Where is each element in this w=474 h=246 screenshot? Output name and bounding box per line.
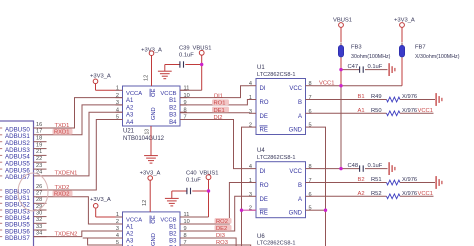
svg-text:27: 27 xyxy=(36,191,42,197)
svg-text:34: 34 xyxy=(36,230,42,236)
wire DE2 (U22 B2 to U4 DE) xyxy=(180,196,249,231)
net label DI1 xyxy=(214,93,223,99)
power +3V3_A (U22 OE pull-up) xyxy=(140,171,161,212)
svg-text:OE: OE xyxy=(151,215,157,224)
wire TXD1 xyxy=(34,98,123,128)
svg-text:A2: A2 xyxy=(126,232,134,238)
svg-text:TXD2: TXD2 xyxy=(55,185,70,191)
svg-text:VCCA: VCCA xyxy=(126,218,142,224)
svg-text:19: 19 xyxy=(36,142,42,148)
wire unused pin stubs xyxy=(34,142,47,237)
svg-text:VCC: VCC xyxy=(289,86,302,92)
svg-text:A: A xyxy=(298,197,302,203)
svg-text:R50: R50 xyxy=(371,108,382,114)
svg-text:22: 22 xyxy=(36,156,42,162)
svg-text:X/976: X/976 xyxy=(402,94,417,100)
svg-text:17: 17 xyxy=(36,129,42,135)
svg-text:3: 3 xyxy=(249,192,252,198)
svg-text:0.1uF: 0.1uF xyxy=(368,64,383,70)
net label RXD1 (highlighted) xyxy=(53,129,73,136)
pin number 12 (U21 OE) xyxy=(144,75,150,81)
svg-text:RXD1: RXD1 xyxy=(54,130,69,136)
svg-text:A3: A3 xyxy=(126,239,134,245)
svg-text:X/976: X/976 xyxy=(402,191,417,197)
svg-text:8: 8 xyxy=(309,164,312,170)
svg-text:DE1: DE1 xyxy=(214,108,225,114)
pin number 12 (U22 OE) xyxy=(142,200,148,206)
svg-text:12: 12 xyxy=(142,200,148,206)
power VBUS1 terminal (top) xyxy=(333,18,352,43)
svg-text:26: 26 xyxy=(36,184,42,190)
svg-text:U4: U4 xyxy=(257,148,265,154)
svg-text:TXD1: TXD1 xyxy=(55,123,70,129)
svg-text:FB7: FB7 xyxy=(415,45,426,51)
net label RO1 (highlighted) xyxy=(212,99,229,106)
svg-text:+3V3_A: +3V3_A xyxy=(394,18,415,24)
svg-text:BDBUS7: BDBUS7 xyxy=(5,235,30,242)
svg-text:0.1uF: 0.1uF xyxy=(186,178,201,184)
transceiver U4 LTC2862CS8-1 xyxy=(249,148,313,218)
svg-text:B2: B2 xyxy=(169,105,177,111)
svg-text:B1: B1 xyxy=(358,94,365,100)
svg-text:TXDEN1: TXDEN1 xyxy=(55,171,78,177)
net label RXD2 (highlighted) xyxy=(53,191,73,198)
power +3V3_A (U22 VCCA) xyxy=(90,197,116,217)
svg-text:VCC1: VCC1 xyxy=(418,108,433,114)
svg-text:GND: GND xyxy=(151,233,157,246)
svg-text:RO1: RO1 xyxy=(214,101,226,107)
level translator U21 NTB0104GU12 xyxy=(116,86,190,143)
svg-text:33: 33 xyxy=(36,224,42,230)
svg-text:C48: C48 xyxy=(348,163,359,169)
svg-text:GND: GND xyxy=(289,211,303,217)
wire to U22 A4 xyxy=(88,238,116,245)
svg-text:LTC2862CS8-1: LTC2862CS8-1 xyxy=(257,155,295,161)
svg-text:A1: A1 xyxy=(358,108,365,114)
net label TXD2 xyxy=(55,185,70,191)
svg-text:U1: U1 xyxy=(257,65,265,71)
svg-text:DI1: DI1 xyxy=(214,93,223,99)
svg-text:7: 7 xyxy=(309,95,312,101)
connector U20 FT2232H bus (ADBUS/BDBUS) xyxy=(0,121,34,246)
net label DI3 xyxy=(216,233,225,239)
svg-text:8: 8 xyxy=(309,81,312,87)
svg-text:RE: RE xyxy=(260,211,268,217)
svg-text:X/976: X/976 xyxy=(402,108,417,114)
svg-text:A4: A4 xyxy=(126,120,134,126)
net label TXD1 xyxy=(55,123,70,129)
svg-text:DE: DE xyxy=(260,114,268,120)
wire TXDEN1 xyxy=(34,112,123,176)
svg-text:LTC2862CS8-1: LTC2862CS8-1 xyxy=(257,72,295,78)
ground (U21 GND pin) xyxy=(144,126,158,163)
svg-text:A2: A2 xyxy=(358,191,365,197)
svg-text:GND: GND xyxy=(289,128,303,134)
svg-text:2: 2 xyxy=(249,206,252,212)
resistor R51 (B2 to ground) xyxy=(313,176,442,189)
wire RO2 (U22 B1 to U4 RO) xyxy=(180,183,249,225)
svg-text:4: 4 xyxy=(116,233,119,239)
svg-text:VCCB: VCCB xyxy=(160,218,176,224)
wire DI1 (U21 B1 to U1 DI) xyxy=(180,86,249,98)
svg-text:OE: OE xyxy=(151,88,157,97)
svg-text:FB3: FB3 xyxy=(351,45,362,51)
ferrite bead FB3 xyxy=(338,43,390,61)
power +3V3_A (U21 VCCA) xyxy=(90,74,116,91)
svg-text:0.1uF: 0.1uF xyxy=(179,53,194,59)
wire DE1 (U21 B3 to U1 DE) xyxy=(180,112,249,114)
svg-text:18: 18 xyxy=(36,136,42,142)
svg-text:RO: RO xyxy=(260,183,269,189)
svg-text:NTB0104GU12: NTB0104GU12 xyxy=(123,136,165,142)
svg-text:+3V3_A: +3V3_A xyxy=(90,197,111,203)
svg-text:R51: R51 xyxy=(371,177,382,183)
wire to U22 A3 xyxy=(83,237,116,239)
svg-text:6: 6 xyxy=(309,192,312,198)
svg-text:X/976: X/976 xyxy=(402,177,417,183)
svg-text:A3: A3 xyxy=(126,113,134,119)
net label RO3 xyxy=(216,240,228,246)
svg-text:RO2: RO2 xyxy=(216,219,228,225)
wire RO3 (U22 B4 down to U6) xyxy=(180,245,251,246)
svg-text:7: 7 xyxy=(309,178,312,184)
svg-text:A: A xyxy=(298,114,302,120)
resistor R52 (A2 to VCC1) xyxy=(313,191,434,199)
net label DE1 (highlighted) xyxy=(212,107,229,114)
svg-text:B3: B3 xyxy=(169,239,177,245)
svg-text:28: 28 xyxy=(36,197,42,203)
wire DI2 (U21 B4 to U4 DI) xyxy=(180,120,249,169)
svg-text:13: 13 xyxy=(145,129,151,135)
capacitor C47 0.1uF with ground xyxy=(339,63,395,76)
svg-text:RE: RE xyxy=(260,128,268,134)
capacitor C48 0.1uF with ground xyxy=(313,162,395,175)
svg-text:DE2: DE2 xyxy=(216,226,227,232)
net label DI2 xyxy=(214,115,223,121)
svg-text:RO3: RO3 xyxy=(216,240,228,246)
power +3V3_A terminal (top right) xyxy=(394,18,415,43)
ferrite bead FB7 xyxy=(399,43,459,61)
connector pin names ADBUS0-ADBUS7 / BDBUS0-BDBUS7 xyxy=(0,126,30,242)
svg-text:1: 1 xyxy=(116,212,119,218)
svg-text:X/30ohm(100MHz): X/30ohm(100MHz) xyxy=(415,54,460,60)
svg-text:1: 1 xyxy=(116,86,119,92)
level translator U22 NTB0104GU12 (bottom) xyxy=(116,212,190,246)
svg-text:1: 1 xyxy=(249,178,252,184)
wire RE net (U1 RE to U4 RE to U6) xyxy=(240,127,256,246)
svg-text:DE: DE xyxy=(260,197,268,203)
svg-text:C39: C39 xyxy=(179,46,190,52)
svg-text:RO: RO xyxy=(260,100,269,106)
svg-text:5: 5 xyxy=(309,123,312,129)
transceiver U1 LTC2862CS8-1 xyxy=(249,65,313,135)
resistor R50 (A1 to VCC1) xyxy=(313,108,434,116)
wire RXD1 xyxy=(34,105,123,135)
net label RO2 (highlighted) xyxy=(215,218,232,225)
svg-text:A1: A1 xyxy=(126,98,134,104)
svg-text:1: 1 xyxy=(249,95,252,101)
power +3V3_A (U21 OE pull-up) xyxy=(141,48,162,87)
svg-text:C40: C40 xyxy=(186,171,197,177)
svg-text:32: 32 xyxy=(36,217,42,223)
svg-text:TXDEN2: TXDEN2 xyxy=(55,231,78,237)
net label DE2 (highlighted) xyxy=(215,225,232,232)
net label TXDEN2 xyxy=(55,231,78,237)
connector pin numbers 16-24 / 26-34 xyxy=(36,122,42,237)
svg-text:4: 4 xyxy=(249,81,252,87)
svg-text:2: 2 xyxy=(116,219,119,225)
svg-text:23: 23 xyxy=(36,163,42,169)
svg-text:B3: B3 xyxy=(169,113,177,119)
svg-text:0.1uF: 0.1uF xyxy=(368,163,383,169)
svg-text:B4: B4 xyxy=(169,120,177,126)
svg-text:B: B xyxy=(298,183,302,189)
svg-text:DI2: DI2 xyxy=(214,115,223,121)
wire TXD2 xyxy=(34,120,123,191)
svg-text:DI: DI xyxy=(260,169,266,175)
svg-text:B2: B2 xyxy=(358,177,365,183)
capacitor C40 0.1uF with VBUS1 terminal and ground xyxy=(165,171,219,218)
svg-text:RXD2: RXD2 xyxy=(54,192,69,198)
svg-text:R49: R49 xyxy=(371,94,382,100)
svg-text:4: 4 xyxy=(249,164,252,170)
svg-text:2: 2 xyxy=(249,123,252,129)
svg-text:30: 30 xyxy=(36,210,42,216)
svg-text:LTC2862CS8-1: LTC2862CS8-1 xyxy=(257,241,295,246)
wire VCC1 net (FB3 to U1 VCC, FB7) xyxy=(313,58,403,169)
svg-text:A1: A1 xyxy=(126,225,134,231)
svg-text:DI: DI xyxy=(260,86,266,92)
svg-text:U21: U21 xyxy=(123,129,135,135)
svg-text:5: 5 xyxy=(116,240,119,246)
svg-text:B2: B2 xyxy=(169,232,177,238)
svg-text:B1: B1 xyxy=(169,225,177,231)
svg-text:U6: U6 xyxy=(257,234,265,240)
svg-text:B: B xyxy=(298,100,302,106)
annotation circle xyxy=(18,173,48,211)
svg-text:B1: B1 xyxy=(169,98,177,104)
wire GND net (U1 pin5, U4 pin5 to U6) xyxy=(313,127,328,246)
svg-text:VCC1: VCC1 xyxy=(319,80,334,86)
transceiver U6 LTC2862CS8-1 (partially visible) xyxy=(257,234,295,246)
svg-text:+3V3_A: +3V3_A xyxy=(90,74,111,80)
wire RO1 (U21 B2 to U1 RO) xyxy=(180,100,249,105)
wire TXDEN2 xyxy=(34,231,116,237)
capacitor C39 0.1uF with VBUS1 terminal and ground xyxy=(158,46,212,91)
wire DI3 (U22 B3 down to U6) xyxy=(180,238,236,246)
svg-text:5: 5 xyxy=(309,206,312,212)
svg-text:VCC1: VCC1 xyxy=(418,191,433,197)
svg-text:12: 12 xyxy=(144,75,150,81)
svg-text:GND: GND xyxy=(151,107,157,120)
svg-text:C47: C47 xyxy=(348,64,359,70)
svg-text:6: 6 xyxy=(309,109,312,115)
svg-text:A2: A2 xyxy=(126,105,134,111)
svg-text:16: 16 xyxy=(36,122,42,128)
svg-text:DI3: DI3 xyxy=(216,233,225,239)
svg-text:30ohm(100MHz): 30ohm(100MHz) xyxy=(351,54,391,60)
svg-text:R52: R52 xyxy=(371,191,382,197)
svg-text:3: 3 xyxy=(116,226,119,232)
svg-text:21: 21 xyxy=(36,149,42,155)
svg-text:VCCA: VCCA xyxy=(126,91,142,97)
net label TXDEN1 xyxy=(55,171,78,177)
resistor R49 (B1 to ground) xyxy=(313,93,442,106)
svg-text:VCCB: VCCB xyxy=(160,91,176,97)
net label VCC1 xyxy=(319,80,334,86)
svg-text:VCC: VCC xyxy=(289,169,302,175)
svg-text:3: 3 xyxy=(249,109,252,115)
wire RXD2 xyxy=(34,197,116,224)
